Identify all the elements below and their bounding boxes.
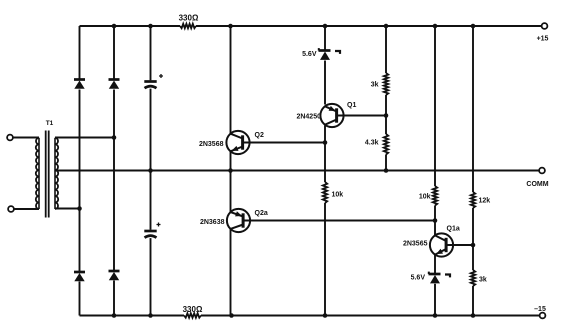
- transistor Q2 2N3568: [226, 131, 249, 154]
- wire: second rectifier column: [112, 24, 117, 318]
- svg-text:Q2: Q2: [255, 132, 264, 139]
- svg-text:3k: 3k: [479, 277, 487, 284]
- svg-text:5.6V: 5.6V: [411, 275, 426, 282]
- svg-text:330Ω: 330Ω: [179, 14, 199, 23]
- capacitor C2 (&#8722; filter): [144, 223, 160, 238]
- diode D3 (lower left rectifier): [74, 272, 85, 281]
- wire: Q1 base lead: [337, 113, 389, 118]
- wire: 3k/4.3k divider column: [384, 24, 389, 173]
- svg-text:330Ω: 330Ω: [183, 305, 203, 314]
- svg-text:3k: 3k: [371, 82, 379, 89]
- wire: Q2 base lead: [243, 140, 328, 145]
- svg-text:Q1: Q1: [347, 102, 356, 109]
- value label 5.6V (top): [302, 51, 317, 58]
- label Q1 2N4250: [296, 102, 356, 121]
- label Q1a 2N3565: [403, 226, 460, 248]
- resistor 10k (left): [323, 182, 343, 203]
- svg-text:2N3638: 2N3638: [200, 219, 225, 226]
- svg-text:Q1a: Q1a: [447, 226, 460, 233]
- zener D6 5.6V (negative reference): [429, 272, 451, 284]
- svg-text:4.3k: 4.3k: [365, 140, 379, 147]
- label Q2 2N3568: [199, 132, 264, 148]
- wire: secondary top tap: [55, 135, 116, 140]
- resistor 3k (lower): [471, 270, 487, 286]
- wire: Q1a base lead: [446, 243, 475, 248]
- resistor 10k (right): [419, 186, 437, 206]
- diode D1 (upper left rectifier): [74, 80, 85, 89]
- svg-text:COMM: COMM: [526, 181, 548, 188]
- svg-text:5.6V: 5.6V: [302, 51, 317, 58]
- svg-text:2N4250: 2N4250: [296, 114, 321, 121]
- transistor Q1 2N4250: [320, 104, 343, 127]
- wire: zener/Q1/10k column: [323, 24, 328, 318]
- wire: +15 top rail: [80, 25, 542, 27]
- wire: left rectifier column: [79, 26, 81, 316]
- wire: filter capacitor column: [148, 24, 153, 318]
- wire: 10k/Q1a column: [433, 24, 438, 318]
- svg-text:+15: +15: [537, 36, 549, 43]
- resistor 12k: [471, 192, 490, 208]
- wire: Q2a base lead: [243, 218, 437, 223]
- wire: Q2/Q2a column: [228, 24, 234, 318]
- transistor Q1a 2N3565: [430, 233, 453, 256]
- resistor 330Ω (bottom rail): [184, 313, 201, 317]
- wire: secondary bottom tap: [55, 206, 82, 211]
- svg-text:2N3565: 2N3565: [403, 241, 428, 248]
- terminal COMM: [526, 168, 548, 188]
- terminal +15: [537, 23, 549, 42]
- svg-text:10k: 10k: [332, 192, 344, 199]
- capacitor C1 (+ filter): [144, 74, 163, 88]
- zener D5 5.6V (positive reference): [319, 48, 341, 60]
- transformer T1: [7, 120, 58, 218]
- svg-text:2N3568: 2N3568: [199, 141, 224, 148]
- resistor 4.3k: [365, 134, 388, 155]
- svg-text:Q2a: Q2a: [255, 210, 268, 217]
- svg-text:–15: –15: [534, 306, 546, 313]
- wire: 12k/3k column: [471, 24, 476, 318]
- wire: COMM line from center tap: [55, 170, 539, 172]
- svg-text:T1: T1: [46, 120, 54, 127]
- resistor 3k (upper): [371, 73, 388, 95]
- value label 5.6V (bottom): [411, 275, 426, 282]
- svg-text:12k: 12k: [479, 198, 491, 205]
- value label 330Ω (bottom): [183, 305, 203, 314]
- value label 330Ω (top): [179, 14, 199, 23]
- diode D2 (upper right rectifier): [109, 80, 120, 89]
- label Q2a 2N3638: [200, 210, 268, 226]
- terminal -15: [534, 306, 546, 318]
- resistor 330Ω (top rail): [180, 24, 196, 28]
- svg-text:10k: 10k: [419, 194, 431, 201]
- wire: -15 bottom rail: [80, 315, 540, 317]
- transistor Q2a 2N3638: [227, 209, 250, 232]
- diode D4 (lower right rectifier): [109, 271, 120, 280]
